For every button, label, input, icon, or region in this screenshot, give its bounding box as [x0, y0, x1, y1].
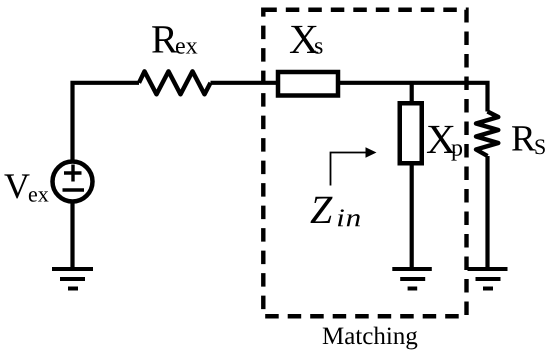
- wire: Vex bottom to ground: [70, 202, 74, 270]
- Zin arrow: [331, 153, 367, 186]
- plus sign inside Vex: [64, 165, 82, 182]
- ground under Rs: [468, 269, 508, 289]
- ground under Vex: [52, 269, 93, 289]
- wire: junction from top wire down to Xp: [410, 83, 414, 103]
- component box Xs: [278, 72, 338, 96]
- matching network dashed box: [263, 10, 466, 317]
- label Zin: [310, 197, 332, 223]
- voltage source Vex: [53, 162, 93, 202]
- wire: Xp bottom to ground: [410, 164, 414, 270]
- label Vex: [4, 174, 29, 198]
- wire: Rs bottom to ground: [485, 156, 489, 269]
- wire: top wire from Rex through to right corner, down to Rs: [211, 83, 488, 112]
- label Rex: [152, 26, 177, 52]
- ground under Xp: [392, 269, 432, 289]
- resistor Rex: [139, 71, 211, 94]
- minus bar inside Vex: [63, 188, 85, 192]
- label Xs: [290, 26, 318, 53]
- resistor Rs: [476, 112, 498, 157]
- label Matching: [323, 327, 418, 350]
- component box Xp: [400, 103, 422, 163]
- label Rs: [512, 126, 536, 150]
- label Xp: [427, 126, 455, 153]
- wire: left vertical from top wire down to Vex, plus top wire to resistor Rex: [73, 83, 140, 160]
